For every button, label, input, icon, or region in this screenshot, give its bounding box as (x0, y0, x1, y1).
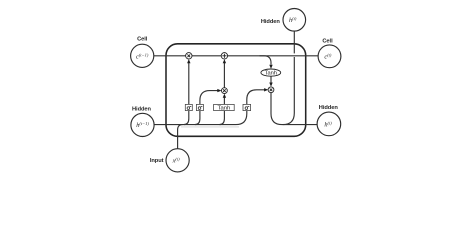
svg-text:Tanh: Tanh (218, 106, 231, 112)
svg-text:Input: Input (150, 158, 164, 164)
svg-text:Hidden: Hidden (319, 105, 339, 111)
svg-text:Cell: Cell (137, 37, 148, 43)
svg-text:Hidden: Hidden (132, 107, 152, 113)
svg-text:Tanh: Tanh (265, 71, 277, 77)
svg-text:Cell: Cell (322, 39, 333, 45)
svg-text:Hidden: Hidden (261, 19, 281, 25)
